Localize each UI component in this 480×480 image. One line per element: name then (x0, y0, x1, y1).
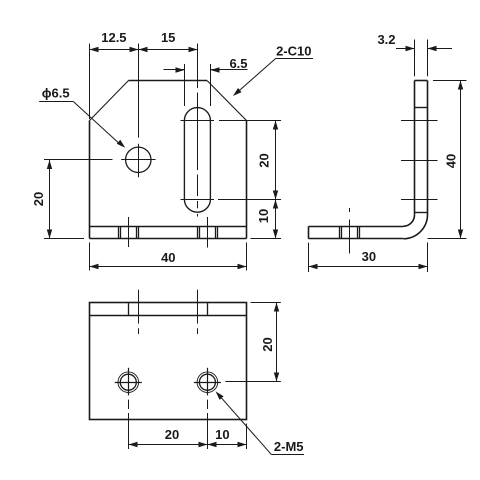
front view: right chamfer C10 (207, 81, 247, 121)
bottom view: slot axis chain line from front view (right) (197, 290, 199, 324)
bottom view: M5 hole right extension to bottom dimension (207, 413, 209, 449)
bottom view dim 20 right: dimension line with arrows (276, 303, 278, 382)
bottom view: M5 hole left extension to bottom dimension (128, 413, 130, 449)
front view: plate right edge (246, 121, 248, 239)
front view dim 20 left: dimension line with arrows (49, 160, 51, 239)
bottom view: M5 tapped hole left - thread circle (118, 372, 139, 393)
side view: inner bend radius (403, 215, 414, 226)
front view dim 6.5: right dimension line with outside arrow (210, 69, 247, 71)
front view: plate top edge (129, 80, 208, 82)
thread callout 2-M5: leader underline (271, 454, 304, 456)
front view dim 6.5: right extension line (210, 64, 212, 106)
bottom view dim 20 right: hole row extension line (225, 381, 280, 383)
bottom view: right edge extension below (246, 424, 248, 450)
svg-text:2-C10: 2-C10 (276, 44, 311, 59)
side view: vertical leg left face (414, 81, 416, 215)
side view: vertical leg right face (427, 81, 429, 215)
thread callout 2-M5: leader line with arrow (219, 395, 272, 455)
svg-text:20: 20 (260, 337, 275, 351)
bottom view dim 10: dimension line with arrows (207, 444, 246, 446)
side view: M5 hole centerline dash (349, 208, 351, 212)
svg-text:20: 20 (31, 192, 46, 206)
svg-text:40: 40 (444, 154, 459, 168)
side view dim 30: right extension line (427, 243, 429, 273)
side view dim 30: dimension line with arrows (309, 266, 428, 268)
front view dim 10 right: dimension line with arrows (275, 199, 277, 238)
bottom view: M5 hole left vertical centerline (128, 368, 130, 396)
hole callout phi6.5: leader underline (39, 101, 73, 103)
side view: flange bottom surface (309, 238, 404, 240)
front view: slot vertical centerline (chain line) (197, 44, 199, 89)
bottom view: M5 hole right vertical centerline (207, 368, 209, 396)
svg-text:20: 20 (256, 153, 271, 167)
front view: hole vertical centerline (lower part) (138, 144, 140, 177)
front view dim 20 left: extension line at hole center (44, 159, 113, 161)
side view: flange left end cap (308, 226, 310, 238)
side view dim 40: bottom extension line (428, 238, 467, 240)
front view: hole vertical centerline extension to top dimension (138, 44, 140, 138)
side view dim 40: dimension line with arrows (460, 81, 462, 239)
front view: plate left edge (89, 121, 91, 239)
side view: M5 hole centerline (349, 220, 351, 254)
bottom view: M5 hole left horizontal centerline (115, 382, 142, 384)
side view: M5 hole edge-view thread lines (339, 226, 341, 238)
front view dim 15: dimension line with arrows (138, 49, 197, 51)
bottom view: M5 hole left centerline dash below (128, 400, 130, 409)
bottom view: left hole centerline across bend band (128, 303, 130, 316)
svg-text:10: 10 (215, 427, 229, 442)
svg-text:15: 15 (161, 30, 175, 45)
front view: M5 hole left edge-view thread lines (118, 226, 120, 239)
svg-text:10: 10 (256, 209, 271, 223)
side view: flange top surface (309, 226, 404, 228)
front view dim 20 right: dimension line with arrows (275, 121, 277, 200)
front view: plate bottom edge (90, 238, 247, 240)
side view dim 40: top extension line (433, 80, 467, 82)
front view: left chamfer C10 (90, 81, 129, 121)
side view: outer bend radius (403, 215, 427, 239)
bottom view: M5 hole right centerline dash below (207, 400, 209, 409)
front view: M5 hole right centerline (207, 217, 209, 248)
bottom view dim 20 right: top extension line (251, 302, 281, 304)
front view: M5 hole right edge-view thread lines (197, 226, 199, 239)
front view: slot top arc center tick (181, 120, 215, 122)
chamfer callout 2-C10: leader line with arrow (237, 58, 277, 93)
side view: top edge (415, 80, 428, 82)
svg-text:12.5: 12.5 (101, 30, 126, 45)
svg-text:6.5: 6.5 (229, 56, 247, 71)
front view: hole crosshair horizontal centerline (121, 159, 155, 161)
side view dim 30: left extension line (308, 243, 310, 272)
side view dim 3.2: right extension line (427, 40, 429, 77)
bottom view: M5 tapped hole left - drill circle (120, 374, 136, 390)
bottom view: bend tangent line (90, 315, 247, 317)
front view dim 20 left: extension line at bottom edge (44, 238, 84, 240)
front view dim 12.5: dimension line with arrows (90, 49, 139, 51)
front view: slot outline (obround 6.5 x 20) (184, 108, 210, 213)
front view dim 20/10 right: extension line at slot bottom arc center (218, 199, 281, 201)
side view dim 3.2: left extension line (414, 40, 416, 77)
bottom view: hole axis chain line from front view (left) (138, 290, 140, 324)
side view: slot bottom arc centerline crossing (401, 199, 438, 201)
side view: slot top edge projection (415, 107, 428, 109)
bottom view: right hole centerline across bend band (207, 303, 209, 316)
front view: M5 hole left centerline (128, 217, 130, 247)
svg-text:ϕ6.5: ϕ6.5 (42, 86, 70, 101)
bottom view: M5 tapped hole right - thread circle (197, 372, 218, 393)
front view: hole phi6.5 (126, 147, 151, 172)
front view dim 40: dimension line with arrows (90, 266, 247, 268)
side view: slot top arc centerline crossing (401, 120, 438, 122)
front view dim 20 right: extension line at chamfer corner level (219, 120, 281, 122)
svg-text:30: 30 (362, 249, 376, 264)
side view: slot bottom edge projection (415, 212, 428, 214)
front view dim 12.5: extension line at left edge (89, 44, 91, 120)
svg-text:20: 20 (165, 427, 179, 442)
side view dim 3.2: right dimension line with outside arrow (428, 48, 453, 50)
front view dim 10 right: extension line at bottom edge (251, 238, 282, 240)
front view dim 40: left extension line (89, 243, 91, 271)
side view: hole centerline crossing (401, 160, 438, 162)
bottom view dim 20: dimension line with arrows (128, 444, 207, 446)
front view dim 6.5: left extension line (184, 64, 186, 106)
side view dim 3.2: left dimension line with outside arrow (396, 48, 415, 50)
svg-text:40: 40 (161, 250, 175, 265)
svg-text:3.2: 3.2 (377, 32, 395, 47)
bottom view: M5 hole right horizontal centerline (194, 382, 221, 384)
front view dim 40: right extension line (246, 243, 248, 271)
chamfer callout 2-C10: leader underline (276, 58, 313, 60)
bottom view: M5 tapped hole right - drill circle (199, 374, 215, 390)
front view: slot bottom arc center tick (181, 199, 215, 201)
hole callout phi6.5: leader line with arrow (74, 102, 122, 146)
svg-text:2-M5: 2-M5 (274, 439, 304, 454)
bottom view: plate outline (90, 303, 247, 420)
front view: bend tangent line (90, 226, 247, 228)
front view dim 6.5: left dimension line with outside arrow (164, 69, 185, 71)
